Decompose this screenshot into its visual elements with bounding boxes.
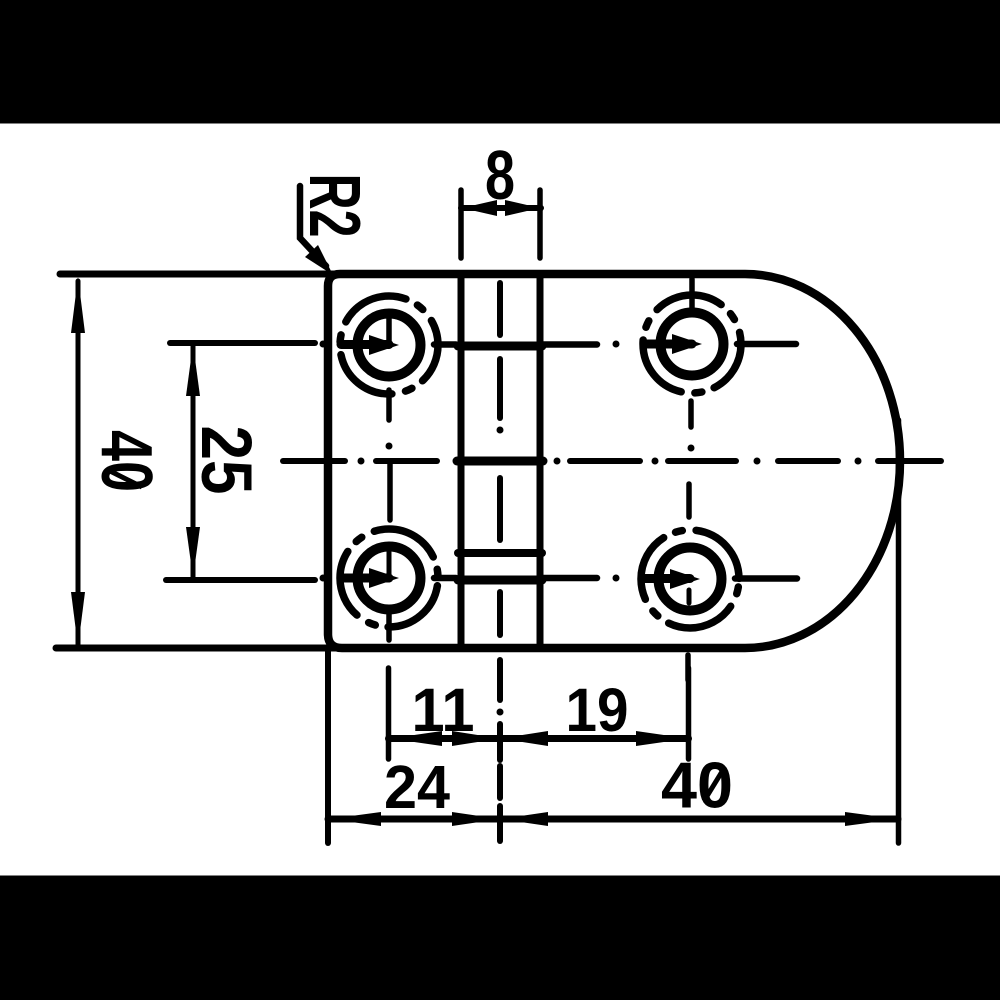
svg-text:40: 40 — [661, 749, 733, 822]
svg-text:8: 8 — [485, 136, 515, 214]
svg-text:R2: R2 — [294, 174, 374, 238]
svg-text:25: 25 — [186, 426, 265, 495]
svg-text:40: 40 — [86, 430, 166, 492]
svg-text:24: 24 — [384, 753, 450, 821]
svg-text:11: 11 — [412, 676, 475, 744]
svg-text:19: 19 — [566, 676, 629, 744]
